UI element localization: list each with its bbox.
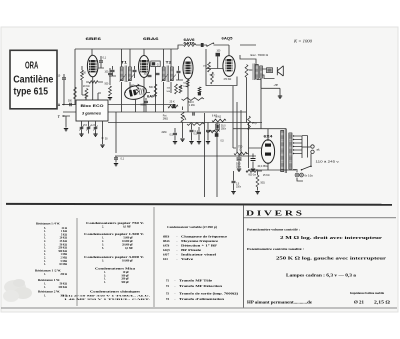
- output transformer T3 core: [253, 64, 254, 81]
- svg-text:HP aimant permanent...........: HP aimant permanent...........de: [247, 301, 313, 305]
- svg-text:2MΩ: 2MΩ: [162, 132, 167, 134]
- tube 6AF7 tuning indicator: [123, 84, 147, 101]
- resistor 600 1w: [246, 170, 258, 173]
- ground pot: [180, 139, 184, 141]
- label 2 MOm det: [179, 87, 182, 89]
- ground osc divider: [108, 98, 112, 100]
- label tube V5 6X4: [264, 135, 273, 139]
- label 750 ohm: [238, 145, 243, 149]
- tube V2 6BA6 IF amplifier: [139, 56, 150, 78]
- label Pot: [163, 114, 167, 117]
- svg-text:-: -: [175, 298, 176, 301]
- ground filter cap2: [251, 169, 255, 171]
- svg-text:25K: 25K: [203, 66, 207, 68]
- wire T2 bottom leads: [164, 82, 172, 112]
- tube V5 6X4 rectifier: [261, 140, 274, 164]
- svg-text:2.: 2.: [102, 226, 104, 229]
- svg-text:Condensateur variable (2×490 p: Condensateur variable (2×490 p): [167, 225, 217, 229]
- wire speaker return: [257, 79, 280, 96]
- label 500K 1M b: [189, 105, 195, 107]
- switch on volume pot: [206, 43, 214, 47]
- wire psu links: [233, 148, 262, 171]
- svg-text:1.: 1.: [104, 281, 106, 284]
- transformer tap junction 3: [293, 142, 294, 143]
- svg-text:Exc. 7000 Ω: Exc. 7000 Ω: [251, 53, 269, 57]
- label 0,5 tone: [221, 141, 225, 143]
- resistor 500K AVC chain: [182, 98, 205, 101]
- tube V4 6AQ5 output: [223, 56, 235, 77]
- wire filter drop: [248, 123, 250, 169]
- dial lamp 2: [300, 173, 304, 177]
- wire B+ top rail: [75, 48, 172, 50]
- label 25 u: [252, 123, 257, 125]
- capacitor switch-line block: [201, 43, 204, 47]
- svg-text:6X4: 6X4: [163, 258, 168, 261]
- label pot repeat: [162, 132, 167, 134]
- label tube V2 6BA6: [143, 36, 160, 41]
- capacitor AF couple: [193, 112, 194, 115]
- svg-text:5 KΩ: 5 KΩ: [216, 116, 222, 119]
- svg-text:2,15 Ω: 2,15 Ω: [374, 301, 390, 305]
- svg-text:2MΩ: 2MΩ: [163, 117, 168, 120]
- wire HT secondary bus: [301, 136, 303, 158]
- svg-text:Moyenne fréquence: Moyenne fréquence: [181, 240, 219, 243]
- svg-text:1 40 MF 350 V 1 TUBUL. CA: 1 40 MF 350 V 1 TUBUL. CART.: [64, 298, 151, 301]
- wire audio drop a: [232, 86, 234, 148]
- svg-text:ORA: ORA: [25, 60, 39, 72]
- wire filter cap1 leads: [238, 154, 240, 169]
- wire bias cap leads: [233, 171, 235, 191]
- wire osc grid: [82, 66, 86, 95]
- label 20 KOm: [83, 86, 90, 88]
- wire audio drop b: [236, 102, 238, 152]
- speaker voice coil: [267, 68, 273, 73]
- svg-text:Potentiomètre volume contrôlé: Potentiomètre volume contrôlé :: [247, 228, 300, 232]
- mains switch: [301, 166, 312, 171]
- scan stain bottom left (decorative, part of scanned page): [3, 279, 32, 302]
- label 500K 1M a: [188, 102, 194, 104]
- label 100 pF: [217, 51, 222, 53]
- wire screen cap2: [198, 127, 200, 141]
- label 600 diode: [183, 83, 187, 85]
- label 10: [58, 75, 61, 78]
- ground tone cap: [206, 142, 210, 144]
- trimmer arrow 2: [86, 126, 90, 131]
- electrolytic 50uF decoupling: [216, 124, 220, 130]
- wire trimmer 2 leads: [88, 121, 90, 134]
- svg-text:110 à 245 v.: 110 à 245 v.: [316, 160, 340, 164]
- node antenna terminal: [63, 104, 65, 106]
- wire cap0.5 leads: [174, 128, 176, 141]
- svg-text:Résistance 2 W.: Résistance 2 W.: [38, 291, 60, 294]
- label antenna cap 500: [68, 101, 73, 103]
- wire trimmer 3 leads: [95, 121, 97, 134]
- resistor AF stopper: [198, 87, 201, 93]
- resistor tone chain: [207, 130, 220, 133]
- svg-text:Potentiomètre contrôle tonalit: Potentiomètre contrôle tonalité :: [247, 247, 304, 251]
- capacitor IF 3: [156, 73, 160, 74]
- resistor 25K: [168, 105, 178, 108]
- svg-text:10 MΩ: 10 MΩ: [59, 263, 67, 266]
- svg-text:Changeuse de fréquence: Changeuse de fréquence: [181, 236, 228, 239]
- svg-text:Condensateurs Mica: Condensateurs Mica: [95, 266, 136, 270]
- bottom rule: [1, 307, 397, 309]
- label Cantilene: [13, 73, 53, 85]
- ground heater cap: [114, 164, 118, 166]
- svg-text:Impédance bobine mobile: Impédance bobine mobile: [350, 292, 385, 295]
- svg-text:6AT6: 6AT6: [163, 245, 170, 248]
- power transformer T4 core: [285, 129, 287, 174]
- ground trimmer 1: [79, 134, 83, 136]
- svg-text:50Ω: 50Ω: [261, 183, 266, 185]
- label lamp rating: [305, 175, 314, 178]
- svg-text:600 1w: 600 1w: [249, 175, 257, 177]
- svg-text:Condensateurs papier 3.000 V.: Condensateurs papier 3.000 V.: [84, 255, 145, 259]
- ground cap 0.5: [173, 142, 177, 144]
- transformer tap junction 6: [293, 153, 294, 154]
- label 5 KOm: [216, 116, 222, 119]
- wire screen cap leads: [98, 56, 105, 68]
- resistor 20K: [85, 89, 88, 99]
- transformer T2 primary winding: [162, 67, 165, 81]
- label 3 gammes: [82, 111, 101, 115]
- wire 6AQ5 cathode drop: [246, 78, 248, 123]
- svg-text:1 (1) 2×50 MF 350 V 1 TUBUL.: 1 (1) 2×50 MF 350 V 1 TUBUL. ALU.: [62, 294, 151, 297]
- capacitor IF 1: [111, 70, 115, 71]
- wire 6AV6 cathode drop: [187, 79, 189, 112]
- svg-text:150v: 150v: [236, 186, 242, 188]
- wire T1 secondary top lead: [129, 49, 131, 67]
- wire rectifier plate lead: [267, 129, 269, 141]
- svg-text:-: -: [177, 245, 178, 248]
- parts table: capacitors column: [62, 221, 151, 301]
- main horizontal divider rule: [6, 203, 392, 206]
- label Bloc ECO: [81, 104, 104, 108]
- label 100 det: [144, 74, 149, 76]
- svg-text:3.: 3.: [102, 260, 104, 263]
- wire T1 bottom leads: [122, 82, 131, 112]
- svg-text:Condensateurs chimiques: Condensateurs chimiques: [90, 289, 141, 293]
- wire heater cap leads: [115, 156, 117, 163]
- wire dial lamp feed 2: [216, 123, 218, 197]
- svg-text:BF Finale: BF Finale: [181, 249, 202, 252]
- svg-text:Transfo MF Détection: Transfo MF Détection: [179, 285, 223, 288]
- trimmer arrow 3: [93, 126, 97, 131]
- label type 615: [14, 86, 49, 98]
- wire trimmer 1 leads: [81, 121, 83, 134]
- capacitor 10pF: [62, 78, 66, 79]
- label 5000 pF: [141, 105, 147, 107]
- resistor filter 750: [234, 152, 247, 155]
- svg-text:K = 1000: K = 1000: [293, 39, 313, 44]
- svg-text:25 KΩ: 25 KΩ: [263, 175, 270, 177]
- ground trimmer 2: [93, 134, 97, 136]
- label 2.0 150v: [236, 184, 240, 186]
- label 2.0 150v b: [236, 186, 242, 188]
- svg-text:5.: 5.: [102, 247, 104, 250]
- wire 6AQ5 grid loop: [206, 49, 237, 86]
- svg-text:-: -: [175, 280, 176, 283]
- svg-text:G.O: G.O: [91, 125, 95, 127]
- transformer tap junction 5: [293, 149, 294, 150]
- label cathode R: [249, 70, 254, 72]
- transformer T1 core: [125, 66, 126, 83]
- wire pot leads: [182, 107, 184, 139]
- label 500 det: [149, 87, 154, 89]
- mains plug: [311, 145, 314, 154]
- node earth terminal: [63, 115, 65, 117]
- resistor volume track: [187, 123, 204, 126]
- svg-text:250 K Ω log. gauche avec inter: 250 K Ω log. gauche avec interrupteur: [276, 256, 386, 261]
- svg-text:250 Ω: 250 Ω: [60, 273, 67, 276]
- resistor bleeder: [256, 175, 259, 187]
- svg-text:100 KΩ: 100 KΩ: [58, 286, 67, 289]
- svg-text:Transfo de sortie (imp. 7000Ω): Transfo de sortie (imp. 7000Ω): [179, 292, 238, 295]
- label 0,5: [170, 134, 174, 137]
- label tube magic eye 6AF7: [147, 95, 157, 99]
- capacitor IF 4: [177, 71, 181, 72]
- svg-text:Cantilène: Cantilène: [13, 73, 53, 85]
- capacitor tone 5000: [206, 130, 210, 131]
- wire T2 secondary top lead: [170, 49, 172, 67]
- tube V1 6BE6 frequency changer: [87, 55, 98, 77]
- label 25K diode: [203, 66, 207, 68]
- wire mains lead: [302, 146, 311, 148]
- wire ground bus: [63, 111, 246, 113]
- resistor 6AV6 diode load: [186, 80, 189, 88]
- wire dial lamp feed 1: [204, 113, 206, 197]
- wire IF cap2 leads: [134, 66, 136, 78]
- resistor AVC 4K: [74, 87, 77, 99]
- transformer T2 secondary winding: [170, 67, 173, 81]
- label K = 1000: [293, 39, 313, 44]
- node padder junction: [102, 137, 104, 139]
- svg-text:-: -: [177, 258, 178, 261]
- wire rectifier heater lead: [248, 163, 296, 171]
- svg-text:T2: T2: [166, 61, 172, 65]
- label 600 1w: [249, 175, 257, 177]
- svg-text:20 KΩ: 20 KΩ: [83, 86, 90, 88]
- label PO: [84, 125, 88, 127]
- wire earth line: [62, 116, 70, 128]
- ground cap 0.1: [189, 142, 193, 144]
- capacitor 0.1 screen: [99, 61, 103, 62]
- svg-text:6BE6: 6BE6: [86, 36, 103, 41]
- svg-text:Résistances 1 /2 W.: Résistances 1 /2 W.: [35, 270, 61, 273]
- wire lamp leads: [297, 170, 303, 181]
- table column separator 3 / DIVERS left border: [243, 205, 245, 308]
- trimmer capacitor 2 under ECO block: [87, 127, 91, 128]
- wire transformer taps: [293, 136, 302, 154]
- svg-text:6BA6: 6BA6: [143, 36, 160, 41]
- parts table: tube list column: [163, 225, 238, 301]
- capacitor grid block: [216, 53, 221, 57]
- label transformer T1: [121, 61, 127, 65]
- svg-text:0,1: 0,1: [103, 56, 107, 60]
- svg-text:Ø 21: Ø 21: [354, 301, 364, 305]
- ground padder: [100, 145, 104, 147]
- capacitor 0.5 screen: [197, 132, 201, 133]
- label 500 osc: [105, 84, 110, 86]
- wire B+ from rectifier: [233, 79, 286, 129]
- svg-text:Condensateurs papier 1.500 V.: Condensateurs papier 1.500 V.: [84, 232, 145, 236]
- resistor 5K dropper: [212, 119, 226, 122]
- wire 6BA6 anode lead: [143, 49, 145, 55]
- svg-text:6AQ5: 6AQ5: [163, 249, 170, 252]
- capacitor 2.0 150v: [232, 181, 236, 182]
- svg-text:6BE6: 6BE6: [163, 236, 170, 239]
- label 0,1 heater: [121, 158, 125, 161]
- wire 6AF7 cap leads: [145, 98, 147, 112]
- svg-text:350v: 350v: [221, 129, 227, 131]
- svg-text:1.: 1.: [44, 295, 46, 298]
- ground bias cap: [231, 192, 235, 194]
- svg-text:+HP: +HP: [274, 85, 279, 87]
- label 470 KOm: [224, 79, 232, 81]
- svg-text:0,5: 0,5: [194, 133, 198, 136]
- ground filter cap1: [237, 169, 241, 171]
- label 100 avc: [167, 88, 171, 90]
- electrolytic filter 1: [237, 158, 242, 160]
- svg-text:6v 0,3a: 6v 0,3a: [305, 175, 314, 178]
- svg-text:-: -: [175, 292, 176, 295]
- wire left AVC drop: [74, 49, 76, 105]
- resistor 6AF7 grid 1M: [136, 84, 139, 94]
- wire bleeder leads: [257, 171, 259, 191]
- transformer tap junction 2: [293, 139, 294, 140]
- resistor diode load 25K: [208, 62, 211, 72]
- trimmer arrow 1: [79, 126, 83, 131]
- svg-text:1.: 1.: [44, 263, 46, 266]
- capacitor antenna coupling: [70, 103, 71, 107]
- dial lamp 1: [295, 173, 299, 177]
- svg-text:P.O: P.O: [84, 125, 88, 127]
- capacitor IF 2: [133, 70, 137, 71]
- svg-text:Bloc ECO: Bloc ECO: [81, 104, 104, 108]
- ground at speaker return: [278, 96, 282, 98]
- label 500 avc: [167, 91, 171, 93]
- ground screen cap2: [197, 142, 201, 144]
- svg-text:Transfo MF Tôle: Transfo MF Tôle: [179, 280, 213, 283]
- wire AVC line: [108, 104, 172, 106]
- label GER: [157, 63, 159, 66]
- resistor AVC filter: [175, 84, 178, 94]
- wire filter cap2 leads: [252, 154, 254, 169]
- wire mains switch lead: [293, 136, 311, 170]
- resistor osc grid 200: [81, 70, 84, 80]
- svg-text:1 MΩ: 1 MΩ: [189, 105, 195, 107]
- resistor 25 cathode: [248, 116, 251, 130]
- capacitor detector 100: [148, 75, 152, 76]
- resistor AVC filter second: [179, 85, 182, 93]
- svg-text:Condensateurs papier 750 V.: Condensateurs papier 750 V.: [86, 221, 145, 225]
- potentiometer wiper arrow: [184, 115, 187, 120]
- capacitor tone block: [215, 133, 219, 137]
- label mains voltage: [316, 160, 340, 164]
- resistor 470K grid: [211, 72, 214, 84]
- label 0,1 AF: [195, 130, 199, 133]
- svg-text:0,1 MF: 0,1 MF: [125, 247, 133, 250]
- transformer tap junction 4: [293, 146, 294, 147]
- svg-text:500 µF: 500 µF: [121, 281, 129, 284]
- label alt: [317, 148, 321, 152]
- svg-text:25 µ: 25 µ: [252, 123, 257, 125]
- svg-text:-: -: [177, 249, 178, 252]
- capacitor 0.1 heater: [114, 158, 118, 159]
- svg-text:Lampes cadran : 6,3 v — 0,3: Lampes cadran : 6,3 v — 0,3 a: [286, 274, 356, 278]
- wire 6AQ5 top lead: [228, 45, 230, 56]
- svg-text:Ω: Ω: [240, 149, 242, 152]
- svg-text:0,1: 0,1: [121, 158, 125, 161]
- wire cap100 leads: [109, 68, 111, 85]
- label 750 ohm b: [240, 149, 242, 152]
- ground earth terminal: [64, 129, 68, 131]
- label tube V3 6AV6: [184, 38, 195, 42]
- wire antenna line: [62, 104, 76, 106]
- label 25 K psu: [263, 175, 270, 177]
- wire T2 primary top lead: [163, 49, 165, 67]
- svg-text:-: -: [177, 240, 178, 243]
- wire heater drop left: [115, 112, 117, 153]
- label padder: [105, 139, 108, 141]
- label 350v psu: [236, 166, 242, 168]
- label transformer T2: [166, 61, 172, 65]
- output transformer T3 secondary: [260, 66, 263, 78]
- trimmer capacitor 1 under ECO block: [80, 127, 84, 128]
- transformer tap junction 1: [293, 135, 294, 136]
- svg-text:1.: 1.: [44, 286, 46, 289]
- svg-text:1MΩ: 1MΩ: [130, 86, 135, 88]
- svg-text:Détection + 1° BF: Détection + 1° BF: [181, 245, 218, 248]
- resistor in B+ switch line: [184, 44, 197, 47]
- label tube V4 6AQ5: [222, 37, 233, 41]
- label 0,1 first: [103, 56, 107, 60]
- capacitor 0.5 coupling: [173, 133, 177, 134]
- label 50.0 psu: [236, 164, 241, 166]
- label 50 ohm: [261, 183, 266, 185]
- output transformer T3 primary: [255, 65, 258, 80]
- svg-text:Résistances 1 /4 W.: Résistances 1 /4 W.: [36, 222, 60, 226]
- wire switch line: [196, 44, 229, 46]
- block ECO 3 gammes box: [76, 100, 108, 121]
- power transformer T4 secondary winding: [281, 131, 284, 172]
- label Pot value: [163, 117, 168, 120]
- wire heater line: [115, 155, 256, 157]
- wire 6BE6 anode lead: [91, 49, 93, 56]
- wire detector drop: [155, 67, 157, 113]
- svg-text:6BA6: 6BA6: [163, 240, 170, 243]
- DIVERS heading underline: [244, 217, 397, 219]
- wire IF cap1 leads: [109, 66, 116, 76]
- table column separator 1: [76, 218, 78, 306]
- label 50.0 350v b: [221, 129, 227, 131]
- capacitor AF block small: [198, 92, 201, 95]
- svg-text:6AQ5: 6AQ5: [222, 37, 233, 41]
- diode box GER: [151, 61, 160, 67]
- resistor detector load: [154, 84, 157, 96]
- label 1 MOm: [130, 86, 135, 88]
- trimmer capacitor 3 under ECO block: [94, 127, 98, 128]
- transformer T2 core: [167, 66, 168, 83]
- svg-text:40,0 350v: 40,0 350v: [258, 166, 269, 168]
- wire bloc top links: [86, 93, 101, 100]
- wire 6BE6 cathode drop: [86, 77, 103, 100]
- label output transformer impedance: [251, 53, 269, 57]
- title box ORA Cantilene type 615: [10, 50, 57, 109]
- wire output transformer secondary leads: [263, 69, 275, 79]
- DIVERS text block: [247, 228, 390, 305]
- label tube V3 alt 6AT6: [184, 42, 195, 46]
